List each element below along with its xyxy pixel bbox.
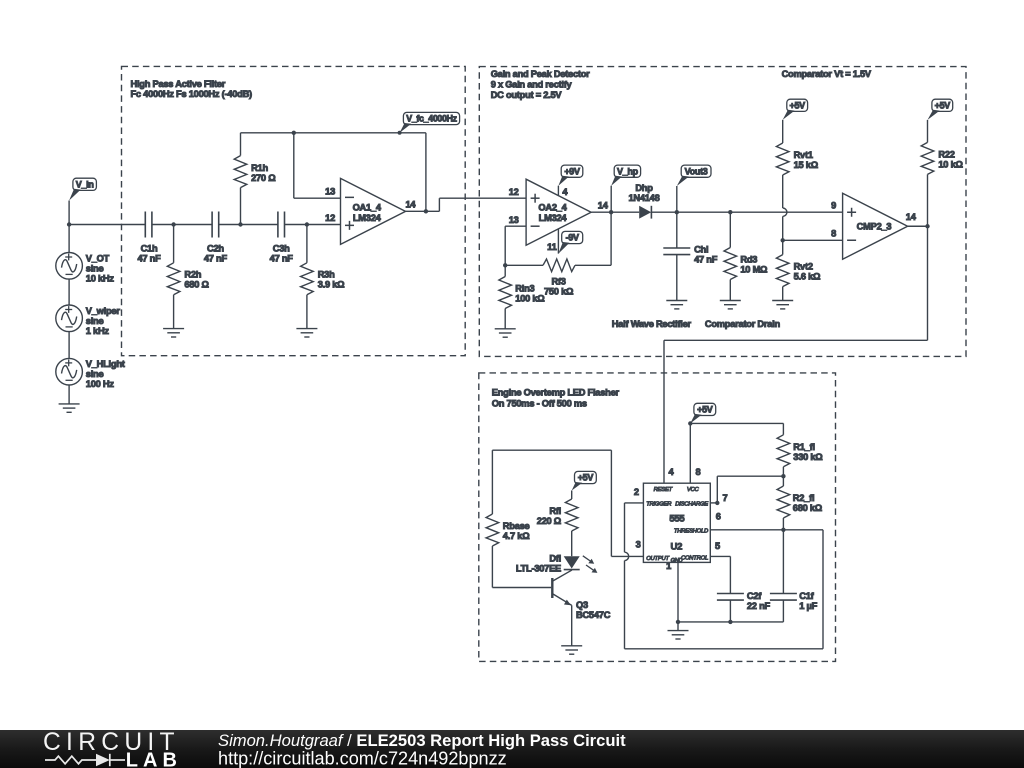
svg-text:sine: sine (86, 316, 104, 326)
svg-text:sine: sine (86, 369, 104, 379)
svg-text:LM324: LM324 (539, 213, 568, 223)
svg-text:+9V: +9V (564, 166, 580, 176)
svg-text:47 nF: 47 nF (204, 254, 228, 264)
svg-text:10 MΩ: 10 MΩ (740, 265, 768, 275)
svg-text:5.6 kΩ: 5.6 kΩ (794, 272, 821, 282)
svg-text:TRIGGER: TRIGGER (646, 502, 672, 508)
svg-text:CMP2_3: CMP2_3 (857, 221, 892, 231)
svg-text:8: 8 (696, 467, 701, 477)
svg-text:Gain and Peak Detector: Gain and Peak Detector (491, 69, 590, 79)
svg-text:4.7 kΩ: 4.7 kΩ (503, 531, 530, 541)
svg-text:C1f: C1f (799, 591, 814, 601)
svg-text:OA2_4: OA2_4 (538, 202, 567, 212)
svg-text:5: 5 (715, 541, 720, 551)
svg-text:CONTROL: CONTROL (681, 555, 708, 561)
svg-text:Engine Overtemp LED Flasher: Engine Overtemp LED Flasher (492, 388, 620, 398)
svg-text:22 nF: 22 nF (747, 601, 771, 611)
svg-text:12: 12 (325, 213, 335, 223)
svg-text:+5V: +5V (790, 100, 806, 110)
svg-text:C3h: C3h (273, 244, 290, 254)
svg-text:Rvt1: Rvt1 (794, 150, 813, 160)
svg-text:V_wiper: V_wiper (86, 306, 121, 316)
svg-text:Rvt2: Rvt2 (794, 262, 813, 272)
svg-text:V_OT: V_OT (86, 253, 110, 263)
svg-text:R22: R22 (938, 149, 954, 159)
svg-text:680 kΩ: 680 kΩ (793, 503, 823, 513)
svg-text:9: 9 (831, 200, 836, 210)
svg-text:3.9 kΩ: 3.9 kΩ (318, 280, 345, 290)
svg-text:sine: sine (86, 263, 104, 273)
svg-text:2: 2 (634, 487, 639, 497)
svg-text:Rfl: Rfl (549, 506, 561, 516)
svg-text:12: 12 (509, 187, 519, 197)
svg-text:BC547C: BC547C (576, 610, 611, 620)
svg-text:11: 11 (547, 242, 556, 252)
svg-text:V_HLight: V_HLight (86, 359, 125, 369)
svg-text:10 kΩ: 10 kΩ (938, 159, 963, 169)
svg-text:13: 13 (509, 215, 519, 225)
svg-text:C2f: C2f (747, 591, 762, 601)
svg-text:Rd3: Rd3 (740, 255, 757, 265)
svg-text:V_hp: V_hp (617, 166, 639, 176)
svg-text:RESET: RESET (654, 487, 673, 493)
svg-text:750 kΩ: 750 kΩ (544, 287, 574, 297)
svg-text:Dhp: Dhp (635, 183, 653, 193)
svg-text:Rf3: Rf3 (551, 277, 565, 287)
svg-text:LAB: LAB (126, 749, 182, 768)
svg-text:10 kHz: 10 kHz (86, 273, 115, 283)
svg-text:Fc 4000Hz Fs 1000Hz (-40dB): Fc 4000Hz Fs 1000Hz (-40dB) (131, 89, 253, 99)
svg-text:Comparator Drain: Comparator Drain (705, 319, 781, 329)
svg-text:U2: U2 (670, 541, 682, 552)
svg-text:Simon.Houtgraaf / ELE2503 Repo: Simon.Houtgraaf / ELE2503 Report High Pa… (218, 731, 626, 750)
svg-text:V_fc_4000Hz: V_fc_4000Hz (406, 114, 457, 124)
svg-text:220 Ω: 220 Ω (537, 516, 562, 526)
svg-text:14: 14 (598, 201, 609, 211)
svg-text:14: 14 (906, 212, 917, 222)
svg-text:Rbase: Rbase (503, 521, 530, 531)
svg-text:High Pass Active Filter: High Pass Active Filter (131, 79, 226, 89)
svg-text:Chi: Chi (694, 244, 708, 254)
svg-text:Q3: Q3 (576, 600, 588, 610)
svg-text:330 kΩ: 330 kΩ (793, 452, 823, 462)
svg-text:14: 14 (406, 199, 417, 209)
svg-text:3: 3 (636, 540, 641, 550)
svg-text:+5V: +5V (935, 100, 951, 110)
svg-text:6: 6 (716, 512, 721, 522)
svg-text:Dfl: Dfl (549, 554, 561, 564)
svg-text:C2h: C2h (207, 244, 224, 254)
svg-text:7: 7 (723, 493, 728, 503)
svg-text:C1h: C1h (141, 244, 158, 254)
svg-text:+5V: +5V (697, 405, 713, 415)
svg-text:V_in: V_in (76, 179, 94, 189)
svg-text:100 Hz: 100 Hz (86, 379, 115, 389)
svg-text:270 Ω: 270 Ω (251, 173, 276, 183)
svg-text:Comparator Vt = 1.5V: Comparator Vt = 1.5V (782, 69, 872, 79)
svg-text:1: 1 (666, 561, 671, 571)
svg-text:Half Wave Rectifier: Half Wave Rectifier (612, 319, 692, 329)
svg-text:15 kΩ: 15 kΩ (794, 160, 819, 170)
svg-text:47 nF: 47 nF (694, 254, 718, 264)
svg-text:R1h: R1h (251, 163, 268, 173)
svg-text:9 x Gain and rectify: 9 x Gain and rectify (491, 80, 573, 90)
svg-text:47 nF: 47 nF (270, 254, 294, 264)
svg-text:DC output = 2.5V: DC output = 2.5V (491, 90, 563, 100)
svg-text:Rin3: Rin3 (515, 283, 534, 293)
svg-text:-9V: -9V (566, 233, 579, 243)
svg-text:LTL-307EE: LTL-307EE (516, 563, 561, 573)
svg-text:On 750ms - Off 500 ms: On 750ms - Off 500 ms (492, 399, 587, 409)
svg-text:Vout3: Vout3 (685, 166, 708, 176)
svg-text:47 nF: 47 nF (137, 254, 161, 264)
svg-text:R2_fl: R2_fl (793, 493, 814, 503)
svg-text:555: 555 (669, 514, 685, 525)
svg-text:http://circuitlab.com/c724n492: http://circuitlab.com/c724n492bpnzz (218, 749, 507, 768)
svg-text:R2h: R2h (184, 270, 201, 280)
svg-text:LM324: LM324 (353, 213, 382, 223)
svg-text:100 kΩ: 100 kΩ (515, 293, 545, 303)
svg-text:1 µF: 1 µF (799, 601, 817, 611)
svg-text:R1_fl: R1_fl (793, 442, 814, 452)
svg-text:OA1_4: OA1_4 (353, 202, 382, 212)
svg-text:THRESHOLD: THRESHOLD (674, 528, 709, 534)
svg-text:13: 13 (325, 186, 335, 196)
svg-text:1 kHz: 1 kHz (86, 326, 110, 336)
svg-text:VCC: VCC (687, 487, 700, 493)
svg-text:8: 8 (831, 229, 836, 239)
svg-text:R3h: R3h (318, 270, 335, 280)
svg-text:+5V: +5V (578, 473, 594, 483)
svg-text:1N4148: 1N4148 (628, 193, 659, 203)
svg-text:680 Ω: 680 Ω (184, 280, 209, 290)
svg-text:DISCHARGE: DISCHARGE (675, 502, 708, 508)
